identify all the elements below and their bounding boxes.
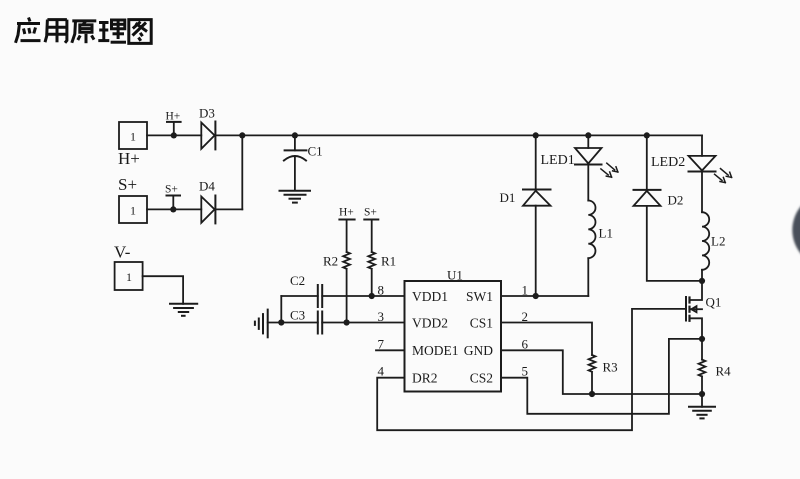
- wire pin7 stub: [376, 349, 405, 351]
- transistor Q1 NMOS: [686, 281, 702, 339]
- svg-text:GND: GND: [464, 343, 493, 358]
- node SW1/D1 junction: [533, 293, 539, 299]
- char 理: [98, 20, 126, 42]
- svg-text:V-: V-: [114, 243, 131, 262]
- wire V- to ground: [143, 276, 184, 304]
- node H+ feed terminal above R2: [339, 220, 354, 253]
- ground below V-: [170, 304, 197, 316]
- diode D4: [201, 196, 215, 224]
- ground sideways left of C3: [255, 310, 268, 338]
- node R4 bottom junction: [699, 391, 705, 397]
- inductor L1: [588, 201, 595, 259]
- LED2 emission arrows: [715, 169, 732, 183]
- node rail/D1: [533, 132, 539, 138]
- node H+ terminal: [167, 122, 181, 139]
- diode D2: [634, 135, 703, 281]
- resistor R3: [589, 355, 596, 372]
- svg-text:MODE1: MODE1: [412, 343, 459, 358]
- connector J1 H+ box: [119, 122, 147, 149]
- LED1: [575, 135, 618, 200]
- char 应: [16, 18, 41, 43]
- node D2/L2/Q1 junction: [699, 278, 705, 284]
- ground below R4: [689, 394, 715, 418]
- wire R2 to pin3 row: [346, 269, 348, 323]
- svg-text:LED2: LED2: [651, 155, 685, 170]
- wire C2 left down to C3 row: [280, 296, 282, 323]
- svg-text:Q1: Q1: [706, 295, 722, 310]
- LED1 emission arrows: [601, 163, 618, 177]
- svg-text:D4: D4: [199, 179, 215, 194]
- svg-text:LED1: LED1: [541, 153, 575, 168]
- connector J2 S+ box: [119, 196, 147, 223]
- wire L1 bottom: [587, 258, 589, 296]
- resistor R4: [699, 339, 706, 394]
- wire D4 branch vertical: [241, 135, 243, 209]
- svg-text:R3: R3: [603, 360, 618, 375]
- svg-text:1: 1: [126, 270, 132, 284]
- svg-text:1: 1: [130, 204, 136, 218]
- char 用: [45, 20, 67, 43]
- svg-text:VDD1: VDD1: [412, 289, 448, 304]
- node Q1 source junction: [699, 336, 705, 342]
- svg-text:H+: H+: [118, 149, 140, 168]
- svg-text:L1: L1: [599, 226, 613, 241]
- svg-text:U1: U1: [447, 268, 463, 283]
- node C2/C3/ground junction: [278, 319, 284, 325]
- wire S+ box to D4: [147, 208, 201, 210]
- node rail/D2: [644, 132, 650, 138]
- ground below C1: [280, 191, 311, 203]
- resistor R2: [343, 252, 350, 269]
- node R2/C3 junction: [344, 319, 350, 325]
- svg-text:7: 7: [378, 337, 385, 352]
- svg-text:C2: C2: [290, 273, 305, 288]
- diode D3: [201, 122, 215, 150]
- node R3 bottom junction: [589, 391, 595, 397]
- svg-text:L2: L2: [711, 234, 725, 249]
- node R1/pin8 junction: [369, 293, 375, 299]
- resistor R1: [368, 252, 375, 269]
- node S+ feed terminal above R1: [364, 220, 378, 253]
- svg-text:4: 4: [378, 364, 385, 379]
- svg-text:2: 2: [522, 309, 529, 324]
- svg-text:5: 5: [522, 364, 529, 379]
- connector J3 V- box: [115, 262, 143, 290]
- svg-text:1: 1: [130, 130, 136, 144]
- svg-text:S+: S+: [165, 184, 178, 196]
- capacitor C2: [281, 285, 404, 307]
- svg-text:1: 1: [522, 283, 529, 298]
- wire pin6 GND route: [501, 350, 702, 394]
- node rail/LED1: [585, 132, 591, 138]
- wire R1 to pin8 row: [371, 269, 373, 296]
- svg-text:S+: S+: [364, 207, 377, 219]
- svg-text:R4: R4: [716, 364, 732, 379]
- op-amp U1 IC body: [405, 281, 502, 392]
- wire pin5 CS2 route: [501, 339, 702, 414]
- node D3/D4 junction: [239, 132, 245, 138]
- decorative gray circle at right edge: [792, 193, 800, 268]
- capacitor C1: [284, 132, 307, 190]
- svg-text:R1: R1: [381, 254, 396, 269]
- svg-text:D3: D3: [199, 106, 215, 121]
- node S+ terminal: [167, 196, 181, 213]
- wire pin4 DR2 route to Q1 gate: [377, 309, 686, 430]
- wire main rail: [215, 134, 702, 136]
- wire pin1 SW1 row: [501, 295, 588, 297]
- svg-text:C3: C3: [290, 308, 305, 323]
- char 图: [129, 20, 151, 44]
- svg-text:D1: D1: [500, 190, 516, 205]
- svg-text:C1: C1: [308, 144, 323, 159]
- wire pin2 CS1 to R3: [501, 323, 592, 356]
- svg-text:R2: R2: [323, 254, 338, 269]
- LED2: [689, 135, 732, 212]
- wire D4 to vertical: [215, 208, 242, 210]
- svg-text:8: 8: [378, 283, 385, 298]
- diode D1: [523, 135, 551, 296]
- svg-text:6: 6: [522, 337, 529, 352]
- svg-text:VDD2: VDD2: [412, 316, 448, 331]
- capacitor C3: [268, 312, 405, 334]
- wire R3 bottom: [591, 373, 593, 394]
- svg-text:3: 3: [378, 309, 385, 324]
- svg-text:CS2: CS2: [470, 371, 493, 386]
- title 应用原理图 (hand-drawn strokes): [16, 18, 152, 44]
- char 原: [72, 21, 97, 43]
- svg-text:H+: H+: [166, 111, 181, 123]
- inductor L2: [702, 212, 709, 281]
- svg-text:SW1: SW1: [466, 289, 493, 304]
- svg-text:DR2: DR2: [412, 371, 438, 386]
- svg-text:S+: S+: [118, 175, 137, 194]
- svg-text:H+: H+: [339, 207, 354, 219]
- wire H+ box to D3: [147, 134, 201, 136]
- svg-text:D2: D2: [668, 193, 684, 208]
- svg-text:CS1: CS1: [470, 316, 493, 331]
